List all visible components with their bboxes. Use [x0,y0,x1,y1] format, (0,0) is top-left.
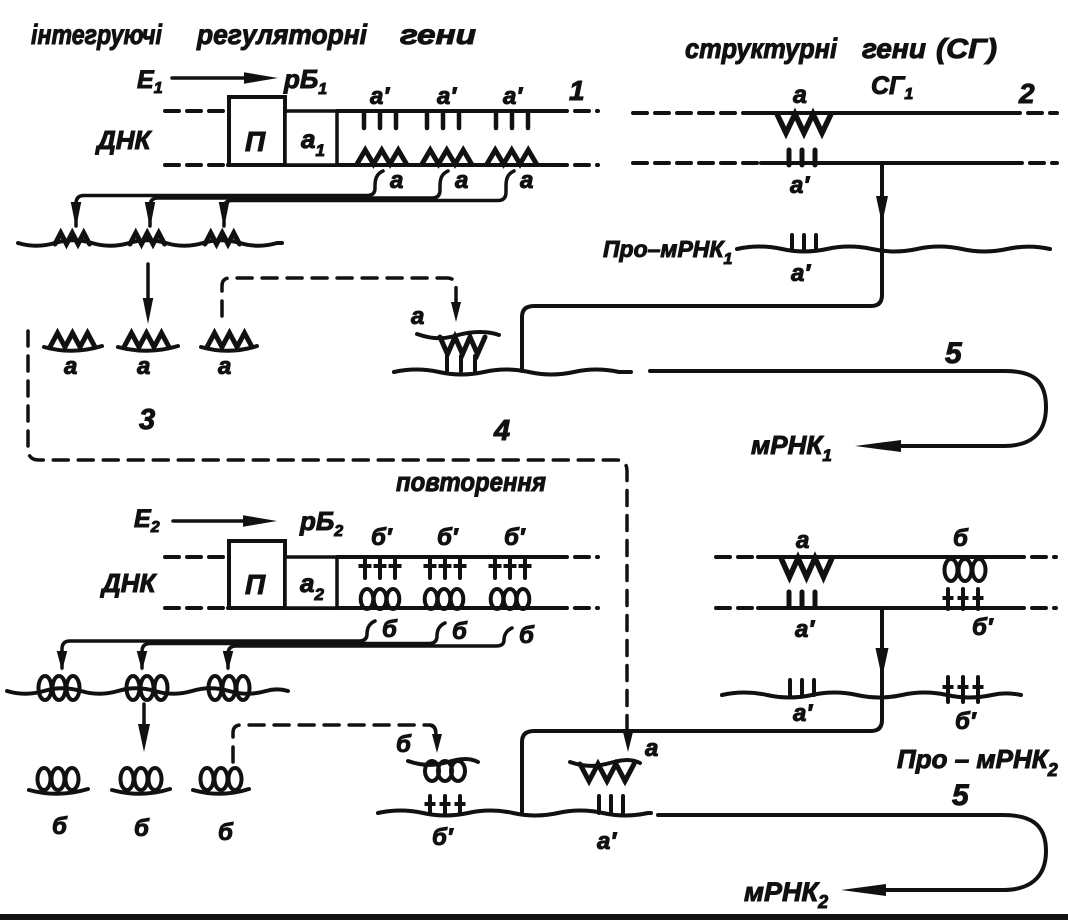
svg-text:б: б [134,815,150,842]
svg-text:б′: б′ [437,524,459,551]
svg-text:3: 3 [139,404,155,436]
svg-text:б′: б′ [432,824,454,851]
svg-text:Про–мРНК1: Про–мРНК1 [603,236,733,268]
svg-text:ДНК: ДНК [95,125,153,155]
svg-text:СГ1: СГ1 [871,72,913,103]
svg-text:П: П [245,569,266,600]
svg-text:б: б [452,618,468,645]
svg-text:гени: гени [400,19,476,50]
svg-text:інтегруючі: інтегруючі [31,19,163,50]
svg-text:а: а [455,167,468,194]
svg-text:структурні: структурні [685,33,838,64]
svg-text:б′: б′ [504,524,526,551]
svg-text:а′: а′ [795,616,815,643]
svg-text:а: а [218,353,231,380]
svg-text:б: б [52,813,68,840]
svg-text:4: 4 [493,415,510,447]
svg-text:а′: а′ [503,83,523,110]
svg-text:5: 5 [952,779,970,812]
svg-text:б′: б′ [972,614,994,641]
svg-text:(СГ): (СГ) [936,33,997,64]
svg-text:б: б [519,622,535,649]
svg-text:а′: а′ [791,260,811,287]
svg-text:а: а [793,81,807,109]
svg-text:гени: гени [862,33,926,64]
svg-text:мРНК2: мРНК2 [744,877,828,912]
svg-text:Е2: Е2 [134,505,160,536]
svg-text:П: П [245,126,266,157]
svg-text:б′: б′ [371,524,393,551]
svg-text:Е1: Е1 [137,66,163,97]
svg-text:рБ1: рБ1 [283,64,327,98]
svg-text:а: а [390,167,403,194]
svg-text:рБ2: рБ2 [299,506,343,540]
svg-text:а: а [645,735,658,762]
svg-text:б: б [396,731,412,758]
svg-text:а: а [411,303,424,330]
svg-text:1: 1 [569,75,585,106]
svg-text:а: а [796,527,809,554]
svg-text:а: а [520,167,533,194]
svg-text:а′: а′ [437,83,457,110]
svg-text:5: 5 [945,337,963,370]
svg-text:а: а [64,353,77,380]
svg-text:а′: а′ [793,700,813,727]
svg-text:ДНК: ДНК [100,568,158,598]
svg-text:б: б [218,819,234,846]
svg-text:2: 2 [1018,78,1035,109]
svg-text:б′: б′ [955,708,977,735]
svg-text:регуляторні: регуляторні [196,19,368,50]
svg-text:мРНК1: мРНК1 [751,430,832,465]
svg-text:Про – мРНК2: Про – мРНК2 [897,744,1058,780]
svg-text:а′: а′ [790,172,810,199]
svg-text:б: б [953,525,969,552]
svg-text:повторення: повторення [396,467,546,497]
svg-text:а: а [137,353,150,380]
svg-text:б: б [382,616,398,643]
svg-text:а′: а′ [597,828,617,855]
svg-text:а′: а′ [370,83,390,110]
